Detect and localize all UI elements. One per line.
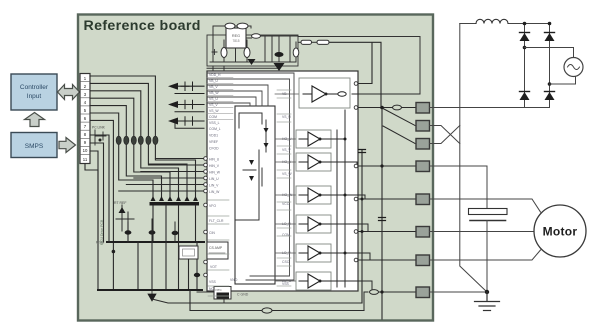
motor M1 <box>534 205 586 257</box>
IC internal detail <box>236 113 266 220</box>
svg-text:Reference board: Reference board <box>84 18 201 34</box>
bus x362 with corner to bottom rail <box>361 150 363 303</box>
pad P7 <box>416 255 430 266</box>
svg-text:10: 10 <box>83 148 88 153</box>
GND bus 1 <box>107 241 204 243</box>
crossover X pad3 <box>430 126 460 144</box>
svg-text:VS_U: VS_U <box>209 97 218 101</box>
cap tick on x382 <box>379 218 386 221</box>
wires from header comb to GND bus <box>153 206 196 243</box>
svg-text:VS_V: VS_V <box>282 148 291 152</box>
svg-text:VREF: VREF <box>209 140 218 144</box>
ground junction dot <box>485 290 489 294</box>
wire bundle below ferrites jogging right to header <box>119 145 196 198</box>
svg-text:VNO: VNO <box>230 278 238 282</box>
svg-text:VSS: VSS <box>209 280 217 284</box>
cap tick on x362 <box>359 150 366 153</box>
signal arrow S3 <box>168 117 204 129</box>
pad P6 <box>416 227 430 238</box>
diode DB1 top-left <box>520 33 530 42</box>
bottom rail 2 with ferrite <box>190 290 364 311</box>
svg-text:LIN_U: LIN_U <box>209 177 219 181</box>
VDD rail above IC <box>207 67 278 69</box>
svg-text:CIN: CIN <box>209 231 215 235</box>
svg-text:REG: REG <box>232 34 240 38</box>
driver output wire T4 to pad5 row <box>331 195 415 199</box>
cap C4 <box>293 48 299 57</box>
resistor R1 <box>301 40 312 44</box>
decoupling cap C12 <box>172 231 179 235</box>
svg-text:NTC: NTC <box>216 288 223 292</box>
svg-text:VB_V: VB_V <box>209 85 218 89</box>
wire gnd bus into IC <box>228 241 240 243</box>
driver output wire T1 to x409 <box>352 93 420 95</box>
pad P5 <box>416 194 430 205</box>
svg-text:PC LINK: PC LINK <box>92 126 106 130</box>
connector J1 strip <box>80 74 90 164</box>
regulator U2 <box>226 28 246 48</box>
svg-text:VSS_L: VSS_L <box>209 121 220 125</box>
gate driver cell D5 <box>296 215 331 233</box>
small component box K2 <box>207 242 228 259</box>
rail y36.5 corner down x409 <box>419 37 421 95</box>
IC right edge pin circles <box>354 82 358 262</box>
gate driver cell D1 (top) <box>299 78 350 108</box>
crossover X pad2 <box>430 126 460 144</box>
svg-text:CSC: CSC <box>282 260 290 264</box>
cap C2 <box>244 48 250 58</box>
IC lower-left pins <box>204 203 238 291</box>
earth ground symbol <box>475 292 500 311</box>
motor phase wire W <box>430 250 541 260</box>
bus x374 from regulator rail <box>329 42 381 107</box>
motor phase wire V <box>430 231 535 233</box>
ground arrow under bus <box>148 290 156 301</box>
main IC U1 outline <box>207 71 358 291</box>
svg-text:VS_W: VS_W <box>282 172 292 176</box>
IC top-left pin labels <box>209 73 221 125</box>
GND bus 2 <box>98 289 202 291</box>
resistor R2 <box>317 40 329 44</box>
svg-text:LIN_W: LIN_W <box>209 190 220 194</box>
svg-text:VOT: VOT <box>210 265 217 269</box>
external DC- wire pad1 to bridge bottom <box>430 107 550 109</box>
small filter cluster near connector <box>92 126 106 146</box>
right block arrow from SMPS <box>59 138 76 153</box>
verticals between buses <box>128 222 197 290</box>
svg-text:SMPS: SMPS <box>25 143 44 150</box>
svg-text:Input: Input <box>27 93 42 100</box>
SMPS block <box>11 133 57 158</box>
svg-text:C GND: C GND <box>237 293 249 297</box>
bridge right leg <box>549 24 551 108</box>
input loop wire <box>213 26 251 35</box>
DC+ vertical line A <box>460 24 487 293</box>
pad P8 <box>416 287 430 298</box>
small transistor / reference cluster <box>114 201 178 242</box>
ferrite bead row on connector wires <box>116 136 158 144</box>
junction dot on sense line <box>112 250 116 254</box>
diagonal feed to pad2 <box>383 109 415 126</box>
diagonal feed to pad3 <box>383 126 415 144</box>
ferrite bead on bottom rail <box>262 308 272 313</box>
bridge junction dots <box>523 22 552 86</box>
pad P1 <box>416 103 430 114</box>
cap C3 electrolytic <box>275 52 284 57</box>
signal arrow S1 <box>168 82 204 94</box>
IC pin label dashes <box>208 90 291 296</box>
gate driver cell D2 <box>296 130 331 148</box>
cap C1 <box>221 48 227 58</box>
header terminal comb <box>150 196 200 206</box>
svg-text:VS_W: VS_W <box>209 109 219 113</box>
pad4 wire to cap line B <box>430 166 488 209</box>
svg-text:VDD_H: VDD_H <box>209 73 221 77</box>
gate driver cell D3 <box>296 153 331 171</box>
inductor L1 <box>476 19 508 23</box>
svg-text:LIN_V: LIN_V <box>209 184 219 188</box>
bead L3 <box>237 23 248 29</box>
ground triangle inside <box>248 59 256 65</box>
gate driver cell D4 <box>296 186 331 204</box>
diode DB3 bottom-left <box>520 92 530 101</box>
pad P3 <box>416 139 430 150</box>
svg-text:MCU Drive PCB: MCU Drive PCB <box>100 219 104 245</box>
driver output wire T3 to pad4 row <box>331 162 415 166</box>
svg-text:VFO: VFO <box>209 204 216 208</box>
internal rails <box>210 35 298 62</box>
decoupling cap C10 <box>125 230 132 234</box>
svg-text:CFOD: CFOD <box>209 147 219 151</box>
svg-text:CS AMP: CS AMP <box>209 246 223 250</box>
small component box K1 <box>179 246 198 259</box>
pad1 feed with ferrite <box>358 107 415 109</box>
stub wires into IC logic input pins <box>119 159 204 192</box>
svg-text:FLT_CLR: FLT_CLR <box>209 219 224 223</box>
controller input block <box>11 74 57 110</box>
svg-text:7815: 7815 <box>232 39 239 43</box>
svg-text:COM_L: COM_L <box>209 127 221 131</box>
svg-text:COM: COM <box>282 233 290 237</box>
svg-text:VB_U: VB_U <box>209 79 218 83</box>
IC core block <box>235 106 275 284</box>
IC right column pin labels <box>282 92 293 286</box>
up block arrow under controller box <box>25 113 45 127</box>
svg-text:VB_W: VB_W <box>209 91 219 95</box>
regulator enclosure stubs to IC <box>213 66 224 71</box>
top DC+ wire with inductor <box>460 23 550 25</box>
svg-text:HIN_W: HIN_W <box>209 171 221 175</box>
pad P4 <box>416 161 430 172</box>
bead L2 <box>225 23 235 29</box>
core wrap wires <box>207 73 294 280</box>
gate driver cell D7 <box>296 272 331 290</box>
bidirectional block arrow between controller and board <box>58 85 80 100</box>
ferrite on pad8 wire <box>370 290 379 295</box>
svg-text:COM: COM <box>209 115 217 119</box>
driver output wire T2 <box>331 138 345 140</box>
junction dots right column <box>344 106 384 294</box>
gate driver cell D6 <box>296 244 331 262</box>
decoupling cap C11 <box>149 230 156 234</box>
rail from regulator output <box>298 36 420 38</box>
polarity cross <box>212 50 217 55</box>
wires from connector pins 8-11 routed down to gnd bus <box>85 135 109 290</box>
svg-text:VS_U: VS_U <box>282 115 291 119</box>
bridge left leg <box>524 24 526 108</box>
power arrow to IC <box>274 63 285 71</box>
svg-text:HIN_U: HIN_U <box>209 158 220 162</box>
driver bus x337 <box>336 130 338 287</box>
pad8 hook to bottom rail <box>364 292 368 311</box>
diagonal from ground arrow to bottom rail <box>152 299 362 303</box>
svg-text:VS_V: VS_V <box>209 103 218 107</box>
driver output wire T5 to pad6 row <box>331 224 415 232</box>
svg-text:HIN_V: HIN_V <box>209 164 220 168</box>
pad P2 <box>416 121 430 132</box>
svg-text:11: 11 <box>83 157 88 162</box>
core to driver stubs <box>275 94 299 281</box>
wire bundle from connector pins routed as nested L to ferrite row <box>90 76 155 290</box>
pad8 wire to ground junction <box>430 291 488 293</box>
svg-text:Motor: Motor <box>543 225 578 239</box>
small component box K3 <box>197 287 249 304</box>
bead L4 <box>252 34 261 38</box>
driver output wire T7 to pad8 row <box>331 281 415 292</box>
DC link capacitor C5 <box>469 209 508 293</box>
driver bus x345 <box>344 110 346 287</box>
motor phase wire U <box>430 199 541 212</box>
voltage regulator subcircuit enclosure <box>207 23 299 71</box>
svg-text:RT REF: RT REF <box>114 201 127 205</box>
AC source V1 <box>564 58 583 77</box>
reference board PCB outline <box>78 15 433 321</box>
svg-text:VDD1: VDD1 <box>209 134 218 138</box>
main DC bus x382 <box>381 108 383 320</box>
AC source connections <box>525 48 574 58</box>
svg-text:VSS: VSS <box>282 282 290 286</box>
svg-text:Controller: Controller <box>20 84 49 91</box>
svg-text:VCC: VCC <box>282 202 290 206</box>
decoupling cap C13 <box>194 273 200 277</box>
diode DB2 top-right <box>545 33 555 42</box>
driver output wire T6 to pad7 row <box>331 253 415 260</box>
diode DB4 bottom-right <box>545 92 555 101</box>
signal arrow S2 <box>168 100 204 112</box>
IC mid-left pins with circles <box>204 127 221 194</box>
